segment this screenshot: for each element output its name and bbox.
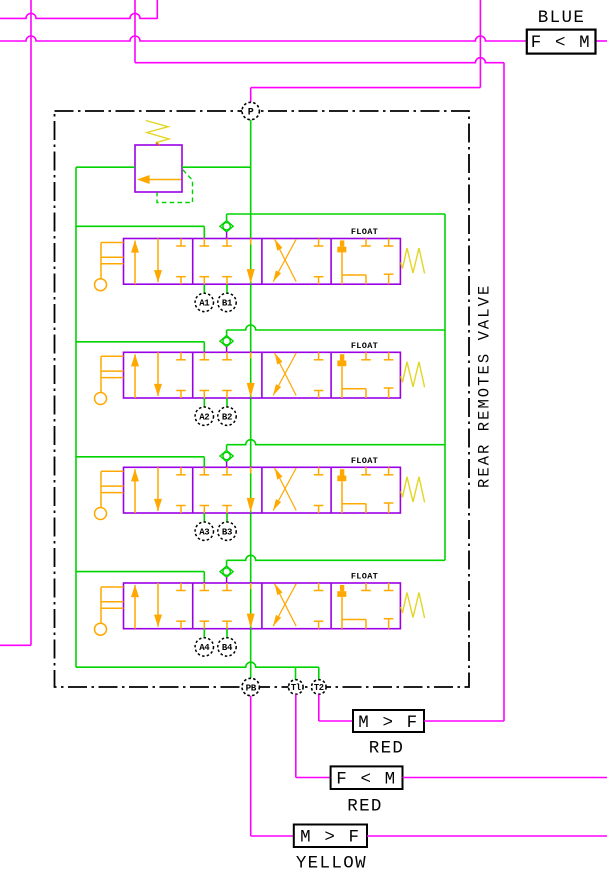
wire green left tank rail — [75, 167, 77, 667]
valve V2 position 1 (raise) arrows — [131, 352, 185, 398]
relief valve RV1 arrow — [138, 175, 181, 183]
valve V1 body (4-position spool) — [124, 239, 401, 285]
wire magenta M2 continuation right of box — [596, 40, 607, 42]
svg-text:A2: A2 — [199, 412, 209, 422]
node TL (tank) — [289, 680, 304, 695]
label FLOAT valve V4 — [351, 572, 378, 582]
valve V3 position 3 (lower) crossed arrows — [273, 467, 323, 513]
valve V3 lever actuator — [95, 471, 124, 519]
svg-text:B2: B2 — [222, 412, 232, 422]
valve V4 lever actuator — [95, 587, 124, 635]
valve V2 position 4 (float) — [337, 352, 393, 398]
valve V4 position 4 (float) — [337, 583, 393, 629]
valve V4 position 2 (neutral) open-centre — [200, 583, 255, 629]
label BLUE (top coupler) — [538, 8, 585, 28]
node A2 work port — [195, 407, 213, 425]
wire green bypass rail between valves 3-4 — [250, 513, 252, 583]
wire green relief outlet to tank rail — [76, 166, 135, 168]
valve V1 lever actuator — [95, 243, 124, 291]
node P (pump supply) — [242, 102, 259, 119]
svg-text:PB: PB — [246, 682, 257, 693]
wire green supply branch row4 (hop over bypass) — [227, 555, 445, 560]
label FLOAT valve V3 — [351, 456, 378, 466]
valve V1 return spring — [401, 248, 425, 274]
coupler box M&gt;F (red) — [353, 710, 424, 733]
valve V4 return spring — [401, 593, 425, 619]
svg-text:B3: B3 — [222, 527, 232, 537]
wire magenta vertical x=480 to node P — [251, 0, 481, 103]
wire green supply branch row3 (hop over bypass) — [227, 440, 445, 445]
wire magenta node T2 to coupler box — [319, 694, 353, 721]
svg-text:A4: A4 — [199, 643, 210, 653]
svg-text:RED: RED — [369, 739, 405, 759]
wire magenta coupler YELLOW to right edge — [367, 835, 607, 837]
wire green work-port leads valve V2 — [204, 398, 227, 407]
wire magenta horizontal M2 (y=41 to F&lt;M box) — [0, 36, 527, 41]
wire magenta vertical V2 (x=135 top feed) — [134, 0, 136, 63]
svg-text:F < M: F < M — [531, 33, 592, 53]
valve V1 position 1 (raise) arrows — [131, 239, 185, 285]
svg-text:F < M: F < M — [336, 770, 397, 790]
wire green supply branch row2 (hop over bypass) — [227, 325, 445, 330]
check valve CV4 (supply diamond) — [220, 560, 233, 583]
wire magenta coupler RED to right edge — [403, 777, 607, 779]
relief valve RV1 pilot line (dashed) — [157, 170, 193, 203]
valve V3 return spring — [401, 477, 425, 503]
node B1 work port — [218, 293, 236, 311]
svg-text:FLOAT: FLOAT — [351, 341, 378, 351]
valve V2 return spring — [401, 362, 425, 388]
node B2 work port — [218, 407, 236, 425]
label FLOAT valve V2 — [351, 341, 378, 351]
svg-text:P: P — [248, 107, 254, 118]
label RED (TL coupler) — [347, 797, 383, 817]
label RED (T2 coupler) — [369, 739, 405, 759]
node A1 work port — [195, 293, 213, 311]
wire magenta node PB to coupler box — [251, 696, 294, 836]
wire green pressure line from P into valve stack — [250, 120, 252, 239]
check valve CV2 (supply diamond) — [220, 330, 233, 352]
valve V3 body (4-position spool) — [124, 467, 401, 513]
svg-text:B4: B4 — [222, 643, 233, 653]
svg-text:FLOAT: FLOAT — [351, 572, 378, 582]
wire green tank branch to valve 4 — [76, 572, 204, 583]
label YELLOW (PB coupler) — [296, 854, 367, 871]
valve V2 position 2 (neutral) open-centre — [200, 352, 255, 398]
svg-text:A3: A3 — [199, 527, 209, 537]
valve V4 position 1 (raise) arrows — [131, 583, 185, 629]
label FLOAT valve V1 — [351, 227, 378, 237]
check valve CV3 (supply diamond) — [220, 445, 233, 468]
wire green relief inlet — [182, 166, 251, 168]
svg-text:REAR REMOTES VALVE: REAR REMOTES VALVE — [475, 284, 493, 488]
valve V2 lever actuator — [95, 356, 124, 404]
svg-text:M > F: M > F — [358, 713, 419, 733]
node A4 work port — [195, 638, 213, 656]
coupler box F&lt;M (blue) — [527, 30, 596, 54]
wire green bypass rail between valves 2-3 — [250, 398, 252, 467]
wire green supply branch row1 (junction at rail) — [227, 213, 445, 215]
svg-text:Tl: Tl — [291, 683, 301, 693]
wire green work-port leads valve V4 — [204, 629, 227, 638]
wire green tank branch to valve 2 — [76, 342, 204, 353]
wire green work-port leads valve V3 — [204, 513, 227, 522]
label REAR REMOTES VALVE (vertical) — [475, 284, 493, 488]
wire green right supply rail — [444, 214, 446, 560]
svg-text:M > F: M > F — [300, 828, 361, 848]
coupler box M&gt;F (yellow) — [294, 825, 367, 848]
relief valve RV1 spring — [146, 121, 169, 146]
wire magenta coupler to x=504 riser — [424, 720, 504, 722]
valve V4 position 3 (lower) crossed arrows — [273, 583, 323, 629]
svg-text:RED: RED — [347, 797, 383, 817]
wire magenta vertical V1 (left, to lower-left exit) — [0, 0, 31, 645]
wire green work-port leads valve V1 — [204, 284, 227, 293]
svg-text:B1: B1 — [222, 299, 233, 309]
relief valve RV1 body — [135, 145, 182, 192]
svg-text:FLOAT: FLOAT — [351, 456, 378, 466]
svg-text:YELLOW: YELLOW — [296, 854, 367, 871]
enclosure REAR REMOTES VALVE (dash-dot boundary) — [55, 111, 470, 687]
check valve CV1 (supply diamond) — [220, 214, 233, 239]
node B3 work port — [218, 522, 236, 540]
wire green tank branch to valve 1 — [76, 226, 204, 238]
coupler box F&lt;M (red) — [331, 766, 403, 789]
valve V1 position 2 (neutral) open-centre — [200, 239, 255, 285]
valve V3 position 2 (neutral) open-centre — [200, 467, 255, 513]
node A3 work port — [195, 522, 213, 540]
valve V2 position 3 (lower) crossed arrows — [273, 352, 323, 398]
valve V1 position 3 (lower) crossed arrows — [273, 239, 323, 285]
wire magenta vertical at x=504 (down right side) — [503, 63, 505, 721]
wire green bypass rail valve4 to node PB — [250, 629, 252, 679]
svg-text:BLUE: BLUE — [538, 8, 585, 28]
wire green bottom tank line (hop over bypass, to TL and T2) — [76, 662, 319, 680]
valve V2 body (4-position spool) — [124, 352, 401, 398]
svg-text:FLOAT: FLOAT — [351, 227, 378, 237]
valve V3 position 1 (raise) arrows — [131, 467, 185, 513]
wire green tank branch to valve 3 — [76, 457, 204, 468]
node B4 work port — [218, 638, 236, 656]
node PB (power beyond) — [242, 678, 259, 695]
wire magenta node TL to coupler box — [296, 694, 331, 777]
valve V3 position 4 (float) — [337, 467, 393, 513]
svg-text:A1: A1 — [199, 299, 210, 309]
wire magenta horizontal M1 (y=18, hops, turns up at x=157) — [0, 0, 157, 19]
valve V1 position 4 (float) — [337, 239, 393, 285]
wire magenta horizontal M3 (y=63) to right drop — [135, 58, 504, 63]
node T2 (tank) — [312, 680, 327, 695]
valve V4 body (4-position spool) — [124, 583, 401, 629]
wire green bypass rail between valves 1-2 — [250, 284, 252, 352]
svg-text:T2: T2 — [314, 683, 324, 693]
